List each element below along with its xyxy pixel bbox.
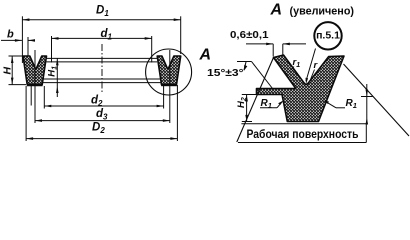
left seal cross-section (hatched chevron) [23, 56, 47, 85]
dimension H [2, 56, 27, 85]
visible edge line L4 [42, 82, 161, 84]
dimension H1 [47, 58, 59, 97]
radius label r [311, 60, 319, 80]
detail callout circle [146, 49, 192, 95]
balloon п.5.1 [306, 22, 342, 84]
working surface line right [344, 64, 410, 136]
visible edge line L1 [47, 57, 158, 59]
fillet label R1 right [324, 98, 357, 110]
svg-text:(увеличено): (увеличено) [290, 6, 355, 18]
detail seal profile (hatched chevron) [257, 55, 345, 122]
leader working surface [361, 84, 373, 125]
left section bottom edge [27, 84, 43, 86]
axis centerline [101, 44, 103, 94]
svg-text:15°±3°: 15°±3° [207, 68, 244, 79]
dimension 0,6±0,1 [230, 30, 306, 57]
dimension b [1, 29, 35, 57]
svg-text:0,6±0,1: 0,6±0,1 [230, 30, 269, 41]
svg-text:b: b [7, 29, 14, 41]
dimension d2 [44, 85, 163, 109]
dimension H2 [236, 95, 257, 122]
right section bottom edge [161, 84, 177, 86]
dimension d3 [35, 50, 170, 123]
working surface line left [237, 58, 274, 143]
radius label r1 [291, 57, 300, 70]
svg-text:п.5.1: п.5.1 [316, 30, 340, 42]
visible edge line L2 [47, 61, 158, 63]
dimension D1 [22, 5, 180, 64]
svg-text:A: A [270, 1, 283, 18]
svg-text:H: H [2, 67, 14, 75]
svg-text:Рабочая поверхность: Рабочая поверхность [247, 129, 359, 141]
angle dimension 15°±3° [207, 62, 273, 89]
dimension d1 [52, 28, 152, 63]
visible edge line L3 [42, 78, 161, 80]
working surface box [238, 124, 366, 143]
fillet label R1 left [260, 98, 283, 110]
svg-text:A: A [199, 47, 212, 64]
right seal cross-section (hatched chevron) [157, 56, 181, 85]
dimension D2 [26, 85, 177, 141]
extension line under left section [30, 86, 32, 106]
